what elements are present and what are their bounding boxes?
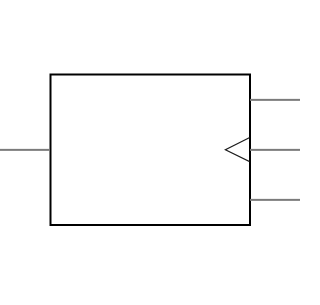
- wire (right top output net): [250, 99, 300, 101]
- clock input triangle on right edge of U1: [225, 138, 249, 162]
- component U1 (block body): [51, 75, 251, 226]
- wire (right bottom output net): [250, 199, 300, 201]
- wire (right middle output net): [250, 149, 300, 151]
- wire (left input net): [0, 149, 50, 151]
